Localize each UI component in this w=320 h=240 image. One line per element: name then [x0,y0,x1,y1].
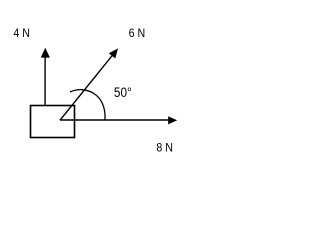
force arrow 6 N shaft [60,55,113,121]
force arrow 6 N head [109,48,118,58]
force arrow 8 N shaft [60,119,169,121]
force arrow 4 N head [41,48,50,58]
svg-text:50°: 50° [114,85,132,100]
svg-text:8 N: 8 N [156,142,173,155]
svg-text:6 N: 6 N [129,27,146,40]
angle arc between 6 N and 8 N arrows [70,90,105,120]
svg-text:4 N: 4 N [13,27,30,40]
box (mass block) [31,106,75,138]
force arrow 4 N shaft [44,57,46,107]
force arrow 8 N head [168,116,177,124]
